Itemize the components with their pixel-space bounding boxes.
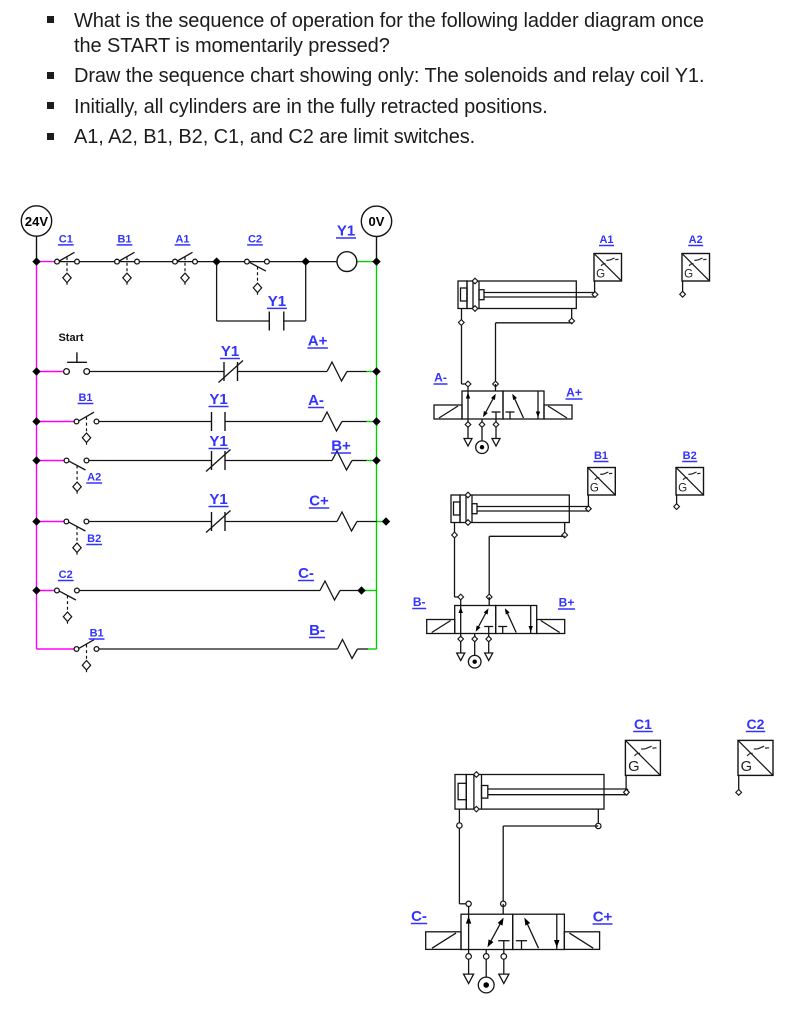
- svg-text:A+: A+: [566, 386, 582, 400]
- svg-text:C-: C-: [411, 908, 427, 925]
- svg-text:B+: B+: [559, 596, 575, 610]
- svg-text:Y1: Y1: [209, 433, 227, 450]
- svg-text:G: G: [596, 268, 605, 280]
- svg-text:Y1: Y1: [268, 293, 286, 310]
- svg-text:A1: A1: [175, 233, 189, 245]
- svg-text:B1: B1: [78, 392, 92, 404]
- svg-text:A2: A2: [87, 472, 101, 484]
- svg-text:B2: B2: [683, 450, 697, 462]
- svg-text:Y1: Y1: [337, 223, 355, 240]
- svg-text:B-: B-: [309, 622, 325, 639]
- svg-text:C2: C2: [747, 716, 765, 732]
- svg-text:B2: B2: [87, 533, 101, 545]
- svg-text:C1: C1: [59, 233, 73, 245]
- svg-text:G: G: [741, 759, 752, 775]
- svg-text:A+: A+: [308, 333, 328, 350]
- svg-text:B1: B1: [117, 233, 131, 245]
- svg-text:A-: A-: [434, 371, 447, 385]
- svg-text:C2: C2: [59, 569, 73, 581]
- svg-text:B1: B1: [90, 628, 104, 640]
- svg-text:B1: B1: [594, 450, 608, 462]
- svg-text:G: G: [678, 482, 687, 494]
- svg-text:24V: 24V: [25, 214, 48, 229]
- svg-text:G: G: [684, 268, 693, 280]
- svg-text:G: G: [590, 482, 599, 494]
- svg-text:A1: A1: [599, 234, 613, 246]
- svg-text:C2: C2: [248, 233, 262, 245]
- svg-text:C1: C1: [634, 716, 652, 732]
- svg-text:Y1: Y1: [221, 343, 239, 360]
- svg-text:B+: B+: [331, 438, 351, 455]
- svg-text:Start: Start: [58, 332, 83, 344]
- svg-text:G: G: [628, 759, 639, 775]
- svg-text:C+: C+: [593, 909, 613, 926]
- svg-text:Y1: Y1: [209, 491, 227, 508]
- svg-text:C-: C-: [298, 565, 314, 582]
- svg-text:0V: 0V: [369, 214, 385, 229]
- svg-text:A2: A2: [689, 234, 703, 246]
- svg-text:Y1: Y1: [209, 391, 227, 408]
- svg-text:A-: A-: [308, 392, 324, 409]
- svg-text:B-: B-: [413, 595, 426, 609]
- svg-text:C+: C+: [309, 493, 329, 510]
